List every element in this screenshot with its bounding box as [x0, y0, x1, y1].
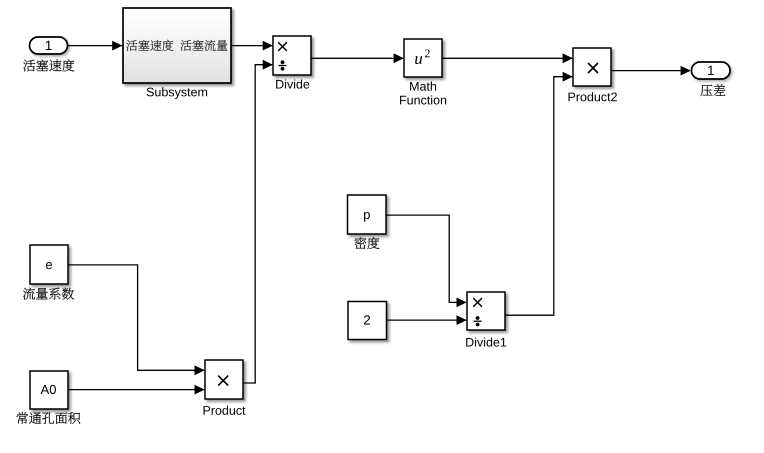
product block: [205, 360, 243, 399]
label 常通孔面积: [17, 412, 81, 424]
inport 1: [30, 37, 68, 54]
A0 text: [41, 385, 56, 394]
label 活塞速度: [23, 59, 74, 71]
label Divide: [276, 79, 309, 88]
subsystem inner port label 活塞流量: [180, 40, 227, 51]
wire p to Divide1 in1: [386, 215, 467, 307]
wire Subsystem to Divide: [231, 41, 273, 51]
wire Divide to Math Function: [311, 53, 404, 63]
math function u2 symbol: [415, 49, 430, 64]
subsystem block: [123, 8, 231, 83]
constant block p: [348, 195, 387, 234]
wire Product to Divide in2: [243, 60, 273, 383]
wire e to Product in1: [68, 265, 205, 375]
subsystem inner port label 活塞速度: [126, 40, 173, 51]
divide symbol div: [279, 60, 287, 70]
divide block: [273, 36, 311, 75]
label Divide1: [466, 337, 506, 346]
wire inport1 to Subsystem: [67, 41, 122, 51]
p text: [364, 212, 370, 222]
product2 block: [573, 48, 611, 86]
product symbol x: [218, 376, 228, 386]
2 text: [364, 315, 370, 324]
math function block: [404, 39, 442, 77]
divide1 symbol x: [473, 298, 482, 307]
e text: [46, 262, 52, 269]
wire Product2 to outport1: [611, 66, 691, 76]
divide symbol x: [278, 42, 287, 51]
constant block e: [30, 245, 68, 284]
label 密度: [355, 237, 380, 249]
label Product2: [569, 92, 617, 101]
constant block 2: [348, 302, 387, 340]
label Product: [203, 406, 245, 415]
wire A0 to Product in2: [68, 385, 205, 395]
divide1 block: [467, 292, 505, 330]
constant block A0: [30, 371, 68, 409]
label Math Function: [400, 82, 446, 105]
label Subsystem: [147, 87, 207, 99]
wire Math Function to Product2 in1: [442, 53, 573, 63]
wire Divide1 to Product2 in2: [505, 72, 573, 315]
label 压差: [700, 84, 725, 96]
wire 2 to Divide1 in2: [387, 315, 467, 325]
outport 1: [692, 62, 731, 79]
divide1 symbol div: [474, 316, 482, 326]
label 流量系数: [23, 288, 74, 300]
product2 symbol x: [588, 63, 598, 73]
